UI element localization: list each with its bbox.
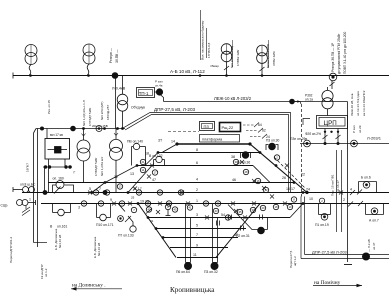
svg-text:38: 38 — [231, 155, 235, 159]
svg-text:3Т: 3Т — [158, 139, 163, 143]
svg-text:оп.37: оп.37 — [372, 242, 376, 250]
svg-text:Г: Г — [74, 171, 76, 175]
small angle bracket left of CRP — [303, 119, 310, 126]
svg-text:СЦБ: СЦБ — [1, 204, 8, 208]
svg-text:10: 10 — [288, 205, 292, 209]
svg-text:54: 54 — [221, 213, 225, 217]
svg-text:1ТПВ.5-0,8: 1ТПВ.5-0,8 — [207, 42, 211, 58]
switch circle 2 right throat — [274, 155, 279, 160]
siding loop op132 — [154, 156, 165, 165]
svg-text:5: 5 — [89, 187, 91, 191]
svg-text:1: 1 — [196, 199, 198, 203]
tick mark bottom right — [344, 264, 352, 266]
svg-text:ПОВП 3-1-40 рез до 100-200: ПОВП 3-1-40 рез до 100-200 — [343, 32, 347, 74]
svg-text:1ПВБ2 4кВт: 1ПВБ2 4кВт — [236, 49, 240, 66]
direction arrow right — [313, 280, 362, 287]
transformer T7 TSB left — [77, 129, 90, 183]
svg-text:24: 24 — [306, 188, 310, 192]
switch circle 1 — [81, 201, 86, 206]
svg-text:№6 1,2/63 вст: №6 1,2/63 вст — [100, 156, 104, 176]
siding loop P2 op31 — [228, 205, 268, 234]
dashed control line to PZ box — [168, 131, 199, 133]
disconnector on CRP feeder — [330, 81, 335, 89]
switch circle 10 — [287, 204, 292, 209]
svg-text:оп.8 ш.БС: оп.8 ш.БС — [20, 183, 36, 187]
left V diagonal lower yard — [138, 204, 176, 258]
insulated joint X6 — [147, 175, 151, 179]
svg-text:16: 16 — [256, 179, 260, 183]
insulated joint X13 — [243, 216, 247, 220]
junction dot J15 — [162, 236, 165, 239]
transformer T3 — [221, 44, 232, 76]
svg-text:— Л-3 кВ: — Л-3 кВ — [367, 239, 371, 252]
svg-text:1ПТ6ДТ 5кВт: 1ПТ6ДТ 5кВт — [88, 107, 92, 126]
junction dot J20 — [29, 74, 32, 77]
feeder drop at x115 — [115, 76, 117, 129]
boundary verticals right of station — [336, 150, 338, 232]
switch circle 23 — [166, 201, 171, 206]
svg-text:4: 4 — [196, 178, 198, 182]
circled dot node — [304, 140, 311, 147]
bottom left vertical labels — [9, 228, 101, 279]
DPR bottom line — [305, 254, 389, 256]
dead end verticals P3 — [211, 204, 218, 270]
track 2 main left — [22, 192, 389, 194]
diag t3 to t1 right — [290, 204, 303, 218]
switch circle 43 — [213, 208, 218, 213]
svg-text:26: 26 — [282, 176, 286, 180]
vertical label passenger building — [201, 20, 212, 60]
track 1 main — [41, 203, 389, 205]
label rule line B — [206, 28, 208, 58]
transformer T4 — [257, 45, 268, 75]
node dot on bus1 — [112, 72, 119, 79]
transformer T1 — [25, 45, 37, 76]
insulated joint X3 — [128, 202, 132, 206]
insulated joint X10 — [180, 191, 184, 195]
insulating joint X marks — [88, 160, 363, 220]
svg-text:13: 13 — [118, 185, 122, 189]
svg-text:№6кв 1,2/63 ППБ: №6кв 1,2/63 ППБ — [266, 44, 270, 68]
label rule line T4 — [268, 40, 270, 68]
svg-text:47: 47 — [152, 178, 156, 182]
svg-text:Р зал: Р зал — [352, 125, 356, 133]
switch circle 29 — [203, 201, 208, 206]
junction dot J2 — [136, 164, 139, 167]
svg-text:2: 2 — [167, 205, 169, 209]
junction dot J11 — [305, 191, 308, 194]
svg-text:7: 7 — [196, 233, 198, 237]
transformer T5 CRP — [322, 87, 333, 116]
switch circle 7 — [104, 190, 109, 195]
vertical label T3 — [230, 45, 240, 68]
right V diagonal lower yard — [216, 204, 260, 258]
svg-text:12: 12 — [114, 175, 118, 179]
svg-text:№4,16 кВ: №4,16 кВ — [97, 243, 101, 256]
svg-text:на Долинську .: на Долинську . — [72, 283, 106, 289]
junction dot J1 — [104, 181, 107, 184]
svg-text:10: 10 — [309, 197, 313, 201]
svg-text:9: 9 — [110, 198, 112, 202]
isolator circles lower with label 1 — [17, 198, 36, 206]
junction dot J18 — [225, 74, 228, 77]
link TP box to node — [154, 91, 159, 93]
left edge entry — [20, 183, 36, 187]
track 3 — [148, 217, 290, 219]
CRP box — [317, 116, 348, 129]
TP-1 box — [137, 88, 155, 98]
svg-text:2: 2 — [196, 188, 198, 192]
svg-text:Кропивницька: Кропивницька — [170, 286, 215, 294]
switch circle 12 — [263, 187, 268, 192]
dashed diagonal right throat — [274, 157, 305, 188]
svg-text:3: 3 — [196, 213, 198, 217]
svg-text:оп.16-17: оп.16-17 — [336, 180, 340, 192]
svg-text:1: 1 — [29, 198, 31, 202]
svg-text:35: 35 — [238, 210, 242, 214]
svg-text:9: 9 — [196, 244, 198, 248]
switch circle 5 — [93, 190, 98, 195]
insulated joint X22 — [339, 191, 343, 195]
svg-text:Пер. 15 км ПВ1: Пер. 15 км ПВ1 — [331, 174, 335, 196]
svg-text:Ф2б оп.2%: Ф2б оп.2% — [305, 132, 321, 136]
bus left end tick — [12, 73, 14, 79]
node dots on y129 — [70, 126, 76, 132]
svg-text:3: 3 — [78, 206, 80, 210]
switch circle 18 — [273, 204, 278, 209]
svg-text:ПЗн оп.29в: ПЗн оп.29в — [290, 137, 307, 141]
svg-text:ЗПВ2 4кВт: ЗПВ2 4кВт — [272, 51, 276, 66]
Rshch-22 box — [220, 123, 241, 132]
svg-text:Резерв Зб.ПВ — 1Р: Резерв Зб.ПВ — 1Р — [331, 43, 335, 72]
svg-text:Л-203/1: Л-203/1 — [367, 136, 382, 141]
svg-text:П10 оп.171: П10 оп.171 — [96, 223, 114, 227]
svg-text:і Вимр: і Вимр — [210, 64, 219, 68]
svg-text:1ПБ6ДТ 5кВт: 1ПБ6ДТ 5кВт — [94, 157, 98, 176]
svg-text:Вол. пасажирського будинку: Вол. пасажирського будинку — [201, 20, 205, 60]
insulated joint X18 — [252, 179, 256, 183]
extra yard micro symbols — [131, 204, 170, 212]
track 9 — [170, 247, 228, 249]
svg-text:№6 2/63 (МГ): №6 2/63 (МГ) — [100, 101, 104, 120]
feeder vertical right x347 — [347, 102, 349, 263]
svg-text:16 17: 16 17 — [286, 187, 295, 191]
insulated joint X1 — [88, 191, 92, 195]
switch circle 19 — [145, 201, 150, 206]
long vertical pair left — [33, 133, 35, 243]
label G op160 — [53, 171, 76, 181]
svg-text:ПЗ: ПЗ — [204, 124, 210, 129]
svg-text:оп. 160: оп. 160 — [53, 177, 64, 181]
insulated joint X4 — [133, 187, 137, 191]
svg-text:А-Б 10 кВ, Л-112: А-Б 10 кВ, Л-112 — [170, 69, 205, 74]
ladder diag t4-t6 — [105, 166, 137, 183]
svg-text:П3 оп.32: П3 оп.32 — [204, 270, 218, 274]
main right throat diagonal — [250, 144, 307, 193]
svg-text:20: 20 — [261, 206, 265, 210]
svg-text:7: 7 — [133, 208, 135, 212]
svg-text:14: 14 — [171, 140, 175, 144]
junction dot J13 — [147, 216, 150, 219]
vertical labels right of bus — [331, 32, 347, 74]
switch circle 15 — [136, 190, 141, 195]
vertical labels LEZh line — [350, 90, 366, 116]
label rule line A — [200, 10, 202, 60]
line L-203/1 — [300, 143, 389, 145]
svg-text:Л-0,4кВ: Л-0,4кВ — [112, 87, 126, 91]
insulated joint X5 — [150, 164, 154, 168]
svg-text:оп.13-14 Л-9,1дов: оп.13-14 Л-9,1дов — [356, 91, 360, 116]
P3 op30 stub — [266, 143, 278, 150]
svg-text:186ЧД-25Т: 186ЧД-25Т — [106, 105, 110, 120]
siding loop A op7 below main — [366, 204, 384, 215]
insulated joint X7 — [158, 202, 162, 206]
transformer T6 ob'yednuvach — [117, 76, 128, 129]
svg-text:П2 оп.31: П2 оп.31 — [236, 234, 250, 238]
svg-text:ДПР-27,5 кВ Л-203: ДПР-27,5 кВ Л-203 — [312, 250, 347, 255]
isolator circles upper — [13, 187, 35, 193]
svg-text:21: 21 — [141, 160, 145, 164]
vertical label R zal op29 — [352, 125, 362, 133]
insulated joint X2 — [112, 202, 116, 206]
node dots track2 — [43, 190, 48, 195]
junction dot J17 — [127, 191, 130, 194]
svg-text:11: 11 — [193, 253, 197, 257]
svg-text:Зб.ПВ —: Зб.ПВ — — [115, 49, 119, 63]
switch circle 21 — [140, 159, 145, 164]
svg-text:ТП-1: ТП-1 — [139, 91, 149, 96]
siding loop P1 op19 — [319, 204, 331, 221]
svg-text:13: 13 — [130, 172, 134, 176]
node dot feeder — [156, 88, 163, 95]
insulated joint X12 — [231, 202, 235, 206]
tap node circled dot — [329, 73, 337, 81]
track numbers labels — [78, 139, 352, 258]
left feeder line y129 — [36, 128, 125, 130]
junction dot J7 — [275, 164, 278, 167]
svg-text:Резерв —: Резерв — — [109, 47, 113, 63]
ladder diag t6-t8 — [145, 153, 158, 166]
vertical label T4 — [266, 44, 276, 68]
svg-text:2: 2 — [276, 156, 278, 160]
svg-text:62: 62 — [262, 129, 266, 133]
svg-text:2: 2 — [321, 199, 323, 203]
svg-text:на Помічну: на Помічну — [314, 280, 341, 286]
siding loop G op160 — [53, 181, 74, 194]
boundary double line platform area — [123, 113, 291, 193]
switch circle 20 — [260, 205, 265, 210]
insulated joint X21 — [285, 164, 289, 168]
switch circle 45 — [172, 207, 177, 212]
track 6 — [137, 165, 253, 167]
svg-text:22: 22 — [301, 173, 305, 177]
track 4 — [48, 182, 294, 184]
switch circle 41 — [187, 205, 192, 210]
junction dot J9 — [302, 191, 305, 194]
junction dot J8 — [293, 181, 296, 184]
svg-text:31: 31 — [216, 202, 220, 206]
svg-text:25: 25 — [131, 196, 135, 200]
svg-text:24: 24 — [266, 135, 270, 139]
svg-text:46: 46 — [232, 178, 236, 182]
svg-text:оп.1а: оп.1а — [305, 97, 313, 101]
switch circle 25 — [157, 190, 162, 195]
svg-text:11: 11 — [142, 168, 145, 172]
insulated joint X15 — [252, 202, 256, 206]
bus A-B 10kV L-112 — [13, 75, 389, 77]
verticals to main track — [44, 167, 46, 193]
transformer T8 TSB right — [110, 129, 123, 193]
vertical label Rezerv — [109, 47, 119, 63]
ladder diag t8-t14 — [162, 144, 177, 153]
label rule line T3 — [232, 40, 234, 67]
op36 marker — [241, 152, 251, 159]
circled dot node right — [351, 140, 358, 147]
vertical label peregin right — [289, 250, 297, 268]
junction dot J3 — [157, 151, 160, 154]
svg-text:Перегін ДПР 901-2: Перегін ДПР 901-2 — [9, 237, 13, 263]
siding loop P7 op133 — [118, 204, 137, 233]
junction dot J6 — [259, 151, 262, 154]
CRP box legs — [323, 129, 341, 144]
switch circle 37 — [250, 207, 255, 212]
label R302 — [305, 94, 313, 102]
junction dots — [324, 142, 327, 145]
switch number circles — [81, 159, 296, 220]
svg-text:В оп.132: В оп.132 — [149, 154, 163, 158]
svg-text:оп.4а: оп.4а — [155, 84, 163, 88]
switch circle 49 — [146, 207, 151, 212]
svg-text:19ПК7: 19ПК7 — [26, 163, 30, 172]
switch circle 17 — [152, 170, 157, 175]
svg-text:оп.29: оп.29 — [358, 125, 362, 133]
dashed taps 64 62 24 — [243, 123, 267, 139]
svg-text:8: 8 — [293, 198, 295, 202]
track 8 — [158, 152, 260, 154]
svg-text:43: 43 — [214, 209, 218, 213]
drop from node to bus2 — [161, 95, 164, 102]
svg-text:Рщ-22: Рщ-22 — [222, 125, 235, 130]
switch circle 11 — [140, 167, 145, 172]
ladder diag t2-t4 — [92, 183, 105, 193]
dotted bar y166 — [43, 165, 72, 168]
svg-text:41: 41 — [150, 219, 154, 223]
ground symbol — [22, 206, 30, 216]
switch circle 13 — [117, 184, 122, 189]
vertical label Per 15km — [331, 174, 341, 196]
dead end verticals P6 — [184, 204, 191, 270]
left bend — [34, 129, 37, 134]
switch circle 33 — [225, 215, 230, 220]
svg-text:5: 5 — [196, 224, 198, 228]
svg-text:П7 оп.133: П7 оп.133 — [118, 234, 134, 238]
svg-text:А оп.7: А оп.7 — [369, 219, 379, 223]
svg-text:45: 45 — [173, 208, 177, 212]
svg-text:8: 8 — [196, 148, 198, 152]
switch circle 9 — [119, 201, 124, 206]
svg-text:19: 19 — [146, 202, 150, 206]
siding loop V op161 — [53, 204, 71, 216]
label R zal op4a — [155, 80, 163, 88]
tap arrow to dashed feeder — [295, 102, 301, 105]
switch circle 8 — [291, 197, 296, 202]
switch circle 35 — [237, 209, 242, 214]
svg-text:25: 25 — [158, 191, 162, 195]
svg-text:7: 7 — [99, 187, 101, 191]
direction arrow left — [71, 283, 122, 291]
feeder dot x42 — [82, 127, 85, 130]
svg-text:платформа: платформа — [202, 137, 223, 141]
svg-text:18: 18 — [145, 152, 149, 156]
junction dot J10 — [302, 202, 305, 205]
junction dot J5 — [248, 142, 251, 145]
svg-text:ДПР-27,5 кВ, Л-203: ДПР-27,5 кВ, Л-203 — [154, 107, 196, 112]
junction dot J21 — [87, 74, 90, 77]
junction dot J19 — [261, 74, 264, 77]
junction dot J12 — [137, 202, 140, 205]
track 11 — [177, 257, 218, 259]
svg-text:оп.1-2: оп.1-2 — [44, 268, 48, 277]
svg-text:Б оп.6: Б оп.6 — [361, 176, 371, 180]
insulated joint X8 — [186, 202, 190, 206]
junction dot bus1 x200 — [199, 74, 202, 77]
node dot DPR — [362, 253, 370, 261]
switch circle 27 — [178, 190, 183, 195]
box vst17 — [45, 129, 70, 168]
svg-text:ЦРП: ЦРП — [324, 120, 337, 127]
svg-text:щП 1-2: щП 1-2 — [293, 256, 297, 266]
insulated joint double ticks — [217, 215, 263, 231]
svg-text:П6 оп.64: П6 оп.64 — [176, 270, 190, 274]
bus2 LEZh-10kV L-203 — [164, 101, 348, 103]
svg-text:30: 30 — [234, 160, 238, 164]
vertical label L-3kV op37 — [367, 239, 376, 252]
svg-text:оп.161: оп.161 — [57, 225, 67, 229]
ladder diag t2-t6 — [128, 166, 152, 193]
svg-text:ЛЕЖ-10 кВ Л-203/2: ЛЕЖ-10 кВ Л-203/2 — [214, 96, 252, 101]
insulated joint X17 — [283, 202, 287, 206]
svg-text:В: В — [50, 225, 53, 229]
svg-text:37: 37 — [251, 208, 255, 212]
svg-text:2: 2 — [343, 198, 345, 202]
svg-text:15: 15 — [137, 191, 141, 195]
track 14 platform — [177, 143, 250, 145]
svg-text:№4,16 кВ: №4,16 кВ — [58, 235, 62, 248]
switch circle 3 — [98, 201, 103, 206]
svg-text:29: 29 — [204, 202, 208, 206]
svg-text:18: 18 — [274, 205, 278, 209]
siding loop P10 op171 — [97, 204, 111, 221]
insulated joint X9 — [156, 210, 160, 214]
vertical labels left area — [47, 100, 110, 176]
svg-text:17: 17 — [153, 171, 157, 175]
svg-text:П3 оп.30: П3 оп.30 — [266, 139, 279, 143]
label V op161 — [50, 225, 67, 229]
svg-text:до управляючої РПМ 25кВт: до управляючої РПМ 25кВт — [337, 33, 341, 74]
platforma box — [200, 135, 240, 143]
switch circle 28 — [243, 169, 248, 174]
svg-text:№6 2/63 всп ВЦ: №6 2/63 всп ВЦ — [230, 45, 234, 68]
svg-text:64: 64 — [258, 123, 262, 127]
svg-text:№6 1,2(1)10+о.1-П: №6 1,2(1)10+о.1-П — [82, 100, 86, 126]
svg-text:28: 28 — [244, 170, 248, 174]
switch circle 30 — [233, 159, 238, 164]
insulated joint X23 — [350, 190, 355, 195]
switch circle 16 — [255, 178, 260, 183]
insulated joint X20 — [240, 160, 244, 164]
dashed feeder F2b — [301, 104, 303, 197]
insulated joint X16 — [270, 195, 274, 199]
